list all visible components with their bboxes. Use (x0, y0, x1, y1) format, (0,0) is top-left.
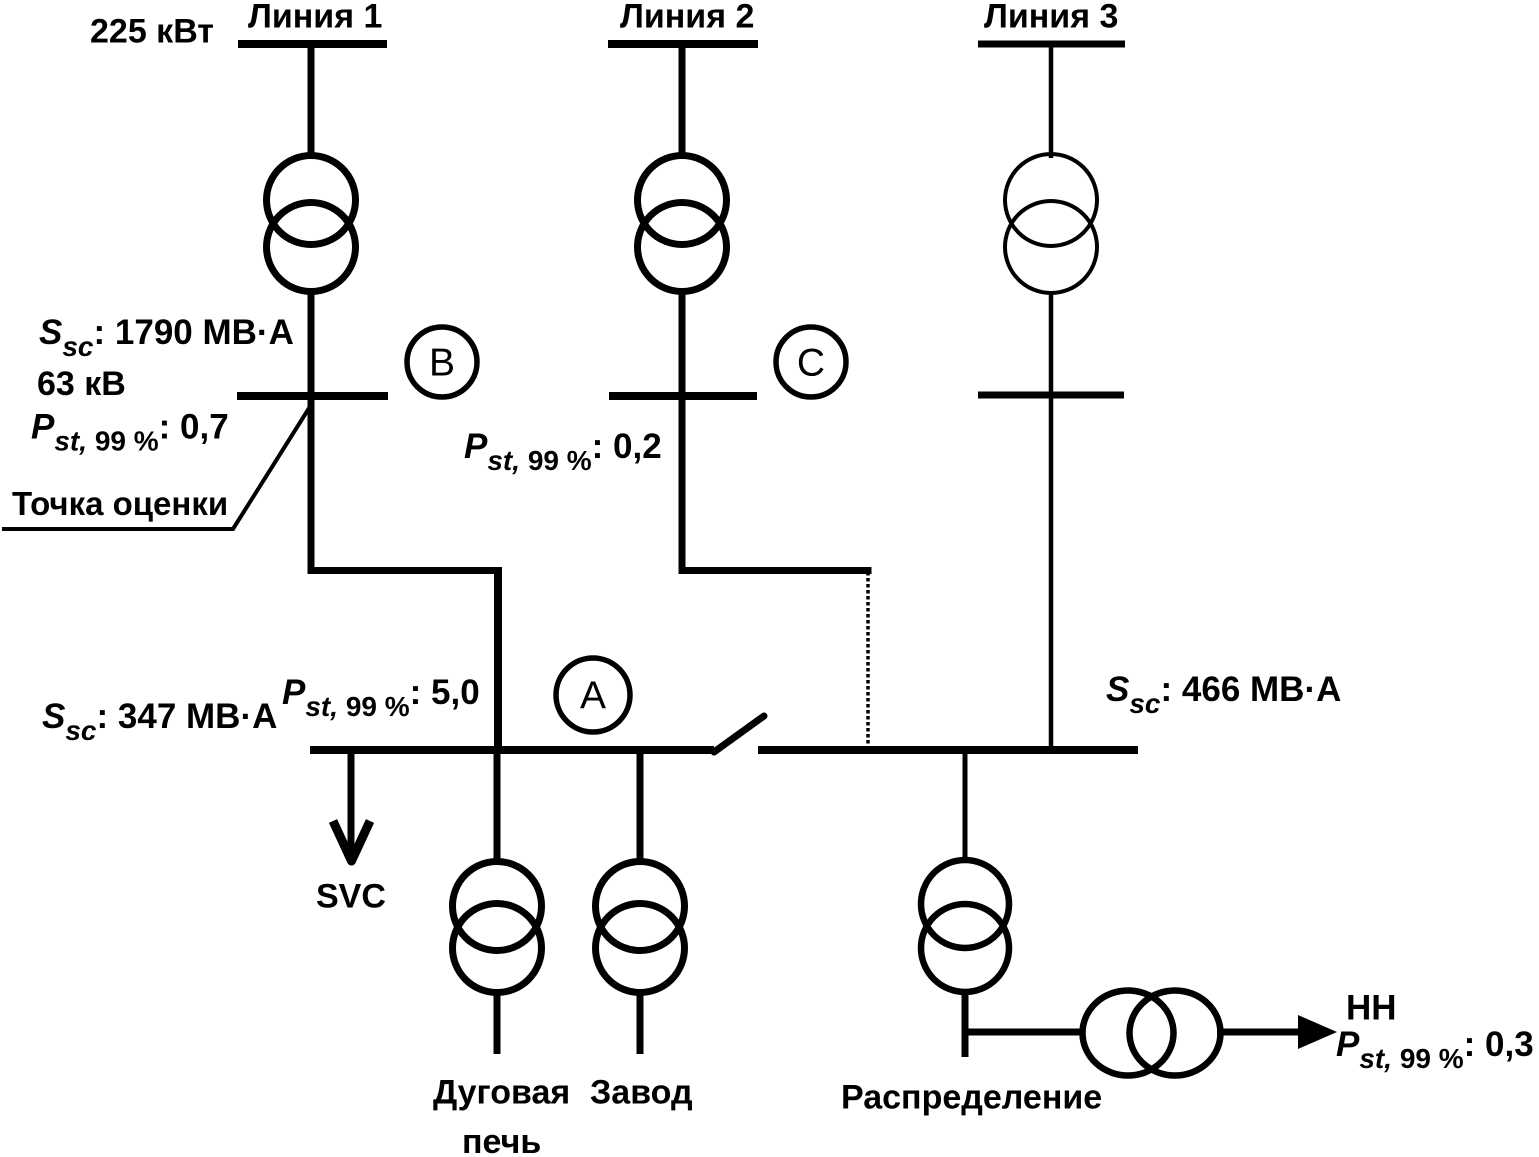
svg-text:B: B (429, 342, 455, 385)
svg-text:Pst, 99 %: 5,0: Pst, 99 %: 5,0 (282, 673, 480, 722)
svg-text:Линия 3: Линия 3 (984, 0, 1118, 36)
svg-text:НН: НН (1346, 989, 1397, 1028)
svg-text:Завод: Завод (590, 1074, 693, 1112)
svg-text:A: A (580, 675, 606, 718)
svg-text:Ssc: 347 МВ·А: Ssc: 347 МВ·А (42, 697, 277, 746)
svg-text:Pst, 99 %: 0,7: Pst, 99 %: 0,7 (31, 408, 229, 457)
svg-text:Распределение: Распределение (841, 1079, 1102, 1117)
svg-text:Дуговая: Дуговая (433, 1074, 570, 1112)
svg-text:Ssc: 466 МВ·А: Ssc: 466 МВ·А (1106, 670, 1341, 719)
svg-text:Линия 1: Линия 1 (248, 0, 382, 36)
svg-text:Pst, 99 %: 0,2: Pst, 99 %: 0,2 (464, 427, 662, 476)
svg-text:Точка оценки: Точка оценки (12, 485, 228, 522)
svg-text:Pst, 99 %: 0,3: Pst, 99 %: 0,3 (1336, 1025, 1534, 1074)
svg-text:Линия 2: Линия 2 (620, 0, 754, 36)
svg-text:печь: печь (462, 1123, 541, 1157)
svg-text:SVC: SVC (316, 878, 386, 916)
svg-text:63 кВ: 63 кВ (37, 365, 126, 403)
svg-text:C: C (797, 342, 825, 385)
svg-text:225 кВт: 225 кВт (90, 13, 214, 51)
svg-text:Ssc: 1790 МВ·А: Ssc: 1790 МВ·А (39, 313, 294, 362)
